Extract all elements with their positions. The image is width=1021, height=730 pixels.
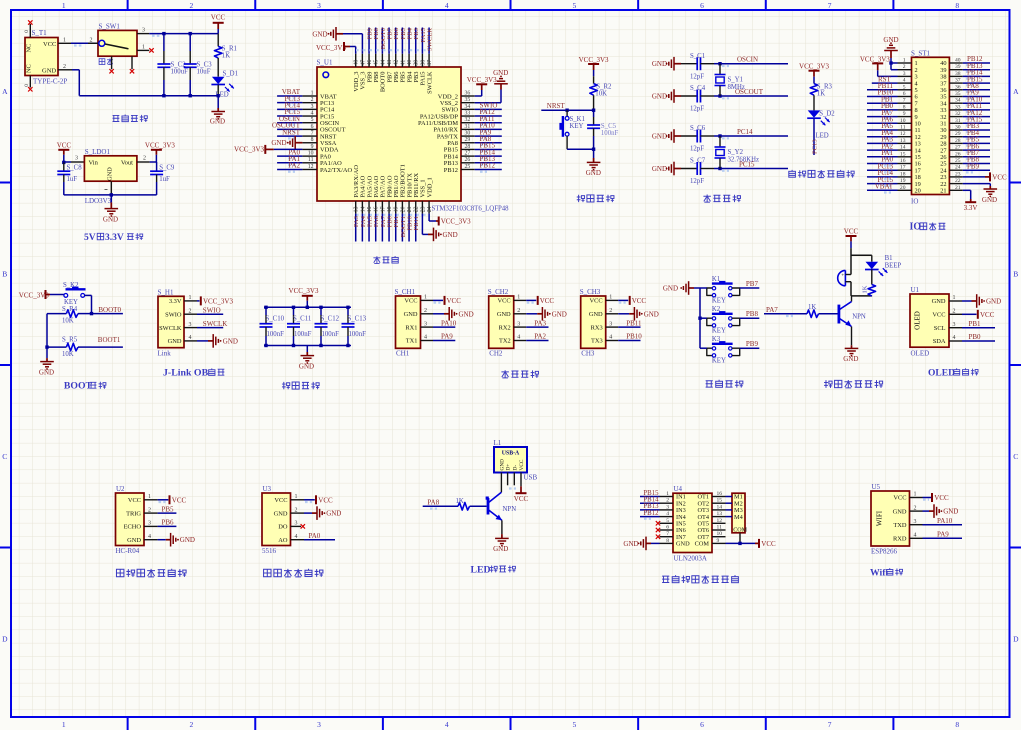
svg-text:31: 31 — [465, 124, 471, 130]
svg-text:11: 11 — [900, 125, 906, 131]
capacitor S_C12 100nF — [315, 307, 340, 345]
net label PB8 (ST1 right) — [963, 156, 990, 166]
svg-text:S_R4: S_R4 — [62, 306, 78, 313]
power VCC (oled) — [962, 310, 995, 319]
net label PB0 (oled sda) — [962, 333, 995, 341]
section label 声光报警电路 — [824, 380, 883, 388]
node junction ldo gnd — [110, 193, 113, 196]
svg-text:1K: 1K — [862, 285, 869, 293]
svg-text:Link: Link — [158, 350, 172, 358]
svg-text:24: 24 — [427, 206, 433, 212]
svg-text:DO: DO — [278, 524, 288, 531]
svg-text:VBAT: VBAT — [875, 183, 894, 191]
svg-text:VCC: VCC — [519, 459, 525, 470]
svg-text:8: 8 — [955, 720, 959, 729]
net label PB11 (ST1 left) — [867, 82, 898, 92]
power VCC_3V3 (mcu VDD_1) — [429, 214, 471, 226]
svg-text:22: 22 — [955, 178, 961, 184]
svg-text:23: 23 — [420, 206, 426, 212]
svg-text:20: 20 — [915, 188, 921, 195]
svg-text:3: 3 — [148, 521, 151, 527]
section label 程序运行指示灯 — [789, 170, 854, 178]
svg-text:34: 34 — [465, 104, 471, 110]
LED S_D2 — [807, 110, 835, 139]
svg-text:100nF: 100nF — [267, 331, 285, 338]
svg-text:KEY: KEY — [570, 123, 584, 130]
svg-text:OLED: OLED — [928, 368, 955, 378]
svg-text:39: 39 — [955, 64, 961, 70]
svg-text:VCC: VCC — [932, 312, 945, 319]
svg-text:GND: GND — [493, 545, 508, 553]
svg-text:20: 20 — [900, 185, 906, 191]
capacitor S_C8 1uF — [57, 162, 82, 195]
svg-text:3: 3 — [295, 521, 298, 527]
capacitor S_C4 12pF — [681, 85, 720, 112]
svg-text:4: 4 — [953, 335, 956, 341]
node junction Y2 top — [718, 134, 721, 137]
svg-text:2: 2 — [666, 498, 669, 504]
svg-text:GND: GND — [299, 362, 314, 370]
net label PA0 (mcu left pin 10) — [277, 148, 302, 158]
svg-text:1: 1 — [311, 90, 314, 96]
section label 滤波电路 — [282, 382, 319, 389]
svg-text:RXD: RXD — [893, 536, 907, 543]
svg-text:S_C13: S_C13 — [348, 315, 367, 322]
svg-text:PA7: PA7 — [766, 306, 778, 314]
svg-text:38: 38 — [420, 60, 426, 66]
net label BOOT1 (mcu bottom) — [400, 214, 407, 242]
resistor S_R1 1K — [214, 34, 237, 77]
connector S_T1 TYPE-C-2P — [24, 20, 72, 91]
svg-text:GND: GND — [652, 133, 667, 141]
svg-text:1: 1 — [62, 720, 66, 729]
svg-text:21: 21 — [940, 188, 946, 195]
svg-text:100nF: 100nF — [601, 130, 619, 137]
section label LED灯电路 — [471, 564, 516, 575]
svg-text:32.768KHz: 32.768KHz — [728, 157, 760, 164]
node junction key top — [565, 109, 568, 112]
svg-text:S_D1: S_D1 — [223, 70, 239, 77]
svg-text:1: 1 — [914, 492, 917, 498]
svg-text:L1: L1 — [494, 439, 502, 447]
svg-text:2: 2 — [63, 64, 66, 70]
ground GND (uln) — [623, 537, 659, 551]
svg-text:1uF: 1uF — [159, 176, 170, 183]
resistor 1K (led series) — [862, 269, 876, 296]
svg-text:PB7: PB7 — [746, 280, 759, 288]
net label PA9 (mcu right) — [475, 128, 502, 138]
resistor 1K (led base) — [456, 498, 487, 510]
net label PB9 (K3) — [740, 340, 760, 348]
connector L1 USB-A — [494, 439, 538, 492]
net label PA15 (ST1 right) — [963, 116, 990, 126]
svg-text:OSCIN: OSCIN — [737, 56, 758, 64]
svg-text:22: 22 — [414, 206, 420, 212]
svg-text:GND: GND — [982, 196, 997, 204]
power VCC_3V3 (ST1 pin3) — [860, 55, 898, 76]
svg-text:24: 24 — [955, 165, 961, 171]
svg-text:30: 30 — [465, 130, 471, 136]
svg-text:NPN: NPN — [503, 506, 517, 513]
svg-text:KEY: KEY — [712, 328, 726, 335]
svg-text:Vin: Vin — [89, 160, 99, 167]
net label VBAT (mcu left pin 1) — [277, 88, 302, 98]
svg-text:GND: GND — [623, 540, 638, 548]
svg-text:9: 9 — [311, 144, 314, 150]
svg-text:3: 3 — [903, 71, 906, 77]
net label PC15 (ST1 left) — [867, 176, 898, 186]
svg-text:RX3: RX3 — [591, 324, 603, 331]
node junction C11 top — [292, 306, 295, 309]
net label PA9 (ST1 right) — [963, 89, 990, 99]
svg-text:4: 4 — [311, 110, 314, 116]
svg-text:11: 11 — [308, 157, 314, 163]
buzzer B? top wiring — [851, 248, 872, 274]
svg-text:3: 3 — [953, 322, 956, 328]
net label PB6 (mcu top) — [393, 27, 400, 53]
svg-text:TRIG: TRIG — [126, 510, 141, 517]
svg-text:S_R1: S_R1 — [222, 45, 237, 52]
net label PA0 (light ao) — [304, 532, 335, 540]
net label PB0 (mcu bottom) — [387, 214, 394, 242]
svg-text:5: 5 — [572, 1, 576, 10]
net label PB7 (mcu top) — [387, 27, 394, 53]
svg-text:13: 13 — [900, 138, 906, 144]
module U3 5516 light sensor — [262, 485, 304, 555]
net label PA3 (CH2 RX) — [526, 319, 548, 327]
net label VBAT (ST1 left) — [867, 183, 898, 193]
svg-text:6: 6 — [700, 1, 704, 10]
svg-text:GND: GND — [459, 310, 474, 318]
net label PA1 (mcu left pin 11) — [277, 155, 302, 165]
svg-text:GND: GND — [943, 508, 958, 516]
ground GND (led) — [493, 534, 509, 553]
svg-text:GND: GND — [404, 311, 418, 318]
wire filter bottom rail — [264, 345, 351, 347]
svg-text:12: 12 — [717, 518, 723, 524]
wire ldo bottom rail — [64, 194, 157, 196]
svg-text:VCC_3V3: VCC_3V3 — [441, 218, 471, 226]
grip marks top band — [356, 50, 428, 215]
svg-text:1K: 1K — [817, 90, 825, 97]
net label PB15 (mcu right) — [475, 142, 502, 152]
svg-text:23: 23 — [955, 171, 961, 177]
svg-text:GND: GND — [271, 139, 286, 147]
svg-text:GND: GND — [589, 311, 603, 318]
svg-text:29: 29 — [955, 131, 961, 137]
svg-text:1: 1 — [666, 491, 669, 497]
svg-text:7: 7 — [666, 531, 669, 537]
net label BOOT1 wire — [92, 336, 123, 347]
section label 四相五线步进电机 — [662, 575, 738, 583]
net label PB10 (CH3 TX) — [618, 333, 642, 341]
power VCC_3V3 (mcu VDD_3) — [316, 42, 356, 54]
ground GND (C4) — [652, 89, 681, 103]
net label PB14 (ST1 right) — [963, 69, 990, 79]
node junction C3 bottom — [189, 94, 192, 97]
net label PA8 (mcu right) — [475, 135, 502, 145]
no-connect IN7 — [656, 535, 660, 539]
net label PB15 (ST1 right) — [963, 75, 990, 85]
svg-text:PA8: PA8 — [427, 499, 439, 507]
svg-text:3: 3 — [666, 504, 669, 510]
svg-text:3: 3 — [142, 28, 145, 34]
svg-text:3: 3 — [914, 519, 917, 525]
crystal S_Y1 8MHz — [715, 64, 745, 96]
net label PB11 (CH3 RX) — [618, 319, 642, 327]
svg-text:4: 4 — [666, 511, 669, 517]
svg-text:GND: GND — [107, 167, 114, 181]
svg-text:37: 37 — [427, 60, 433, 66]
net label PA6 (ST1 left) — [867, 116, 898, 126]
svg-text:GND: GND — [326, 510, 341, 518]
svg-text:16: 16 — [374, 206, 380, 212]
resistor S_R4 10K — [47, 306, 92, 325]
net label PA11 (mcu right) — [475, 115, 502, 125]
net label PA5 (mcu bottom) — [367, 214, 374, 242]
svg-text:PB10: PB10 — [626, 333, 642, 341]
svg-text:S_CH1: S_CH1 — [395, 288, 416, 296]
svg-text:U5: U5 — [872, 483, 881, 491]
net label BOOT0 wire — [92, 306, 123, 314]
svg-text:D: D — [2, 635, 8, 644]
svg-text:8: 8 — [311, 137, 314, 143]
ground GND (mcu VSS_2) — [475, 69, 509, 103]
svg-text:5: 5 — [311, 117, 314, 123]
node junction C13 bottom — [346, 344, 349, 347]
mcu S_U1 STM32F103C8T6_LQFP48 — [302, 54, 509, 214]
ground GND (CH3) — [618, 307, 659, 321]
svg-text:3: 3 — [311, 104, 314, 110]
svg-text:17: 17 — [900, 165, 906, 171]
net label PA10 (wifi txd) — [923, 517, 963, 525]
svg-text:Wifi: Wifi — [870, 567, 889, 578]
ground GND (ldo) — [103, 195, 118, 224]
svg-text:12: 12 — [900, 131, 906, 137]
svg-text:47: 47 — [360, 60, 366, 66]
svg-text:PB0: PB0 — [969, 333, 982, 341]
svg-text:2: 2 — [90, 37, 93, 43]
net label PB10 (ST1 left) — [867, 89, 898, 99]
ground GND (boot) — [39, 358, 54, 376]
svg-text:32: 32 — [955, 111, 961, 117]
section label 电源电路 — [113, 115, 148, 122]
svg-text:PB12: PB12 — [480, 162, 496, 170]
power VCC (alarm) — [844, 227, 859, 248]
svg-text:ULN2003A: ULN2003A — [674, 555, 707, 563]
ground GND (alarm) — [843, 345, 858, 363]
svg-text:TX3: TX3 — [591, 338, 603, 345]
svg-text:PB1: PB1 — [969, 320, 982, 328]
svg-text:33: 33 — [955, 104, 961, 110]
svg-text:VCC_3V3: VCC_3V3 — [799, 62, 829, 70]
net label PB5 (mcu top) — [400, 27, 407, 53]
net label PB1 (ST1 left) — [867, 95, 898, 105]
svg-text:7: 7 — [828, 1, 832, 10]
ground GND (C6) — [652, 129, 681, 143]
svg-text:27: 27 — [465, 151, 471, 157]
node junction Y1 bottom — [718, 94, 721, 97]
net label PB13 (uln in3) — [640, 503, 660, 512]
svg-text:26: 26 — [955, 151, 961, 157]
net label PB1 (mcu bottom) — [393, 214, 400, 242]
power VCC (CH3) — [618, 296, 646, 305]
svg-text:1: 1 — [148, 494, 151, 500]
svg-text:S_ST1: S_ST1 — [911, 49, 931, 57]
svg-text:D-: D- — [512, 465, 518, 471]
svg-text:PA2: PA2 — [534, 333, 546, 341]
svg-text:S_Y2: S_Y2 — [728, 149, 744, 156]
svg-text:GND: GND — [676, 541, 690, 548]
svg-text:USB-A: USB-A — [502, 450, 520, 456]
svg-text:1: 1 — [609, 295, 612, 301]
connector S_CH3 — [580, 288, 619, 358]
svg-text:B: B — [1013, 270, 1018, 279]
svg-text:PB8: PB8 — [746, 310, 759, 318]
svg-text:44: 44 — [380, 60, 386, 66]
net label PA7 (ST1 left) — [867, 109, 898, 119]
no-connect IN5 — [656, 521, 660, 525]
power VCC_3V3 (run led) — [799, 62, 829, 83]
svg-text:VCC: VCC — [844, 227, 859, 235]
svg-text:34: 34 — [955, 98, 961, 104]
svg-text:PC13: PC13 — [812, 139, 819, 154]
svg-text:9: 9 — [903, 111, 906, 117]
net label OSCOUT (mcu left pin 6) — [272, 122, 302, 132]
svg-text:10: 10 — [900, 118, 906, 124]
svg-text:S_C8: S_C8 — [67, 164, 83, 171]
resistor S_R3 1K — [810, 84, 832, 111]
net label PA12 (mcu right) — [475, 108, 502, 118]
net label PA8 (led base) — [423, 499, 458, 509]
svg-text:Vout: Vout — [121, 160, 133, 167]
ground GND (oled) — [962, 294, 1001, 308]
svg-text:15: 15 — [717, 498, 723, 504]
svg-text:STM32F103C8T6_LQFP48: STM32F103C8T6_LQFP48 — [432, 206, 510, 213]
svg-text:PB12: PB12 — [643, 510, 659, 517]
svg-text:+: + — [841, 273, 844, 279]
svg-text:2: 2 — [190, 720, 194, 729]
svg-text:1: 1 — [189, 295, 192, 301]
net label PA15 (mcu top) — [420, 27, 427, 53]
svg-text:SDA: SDA — [933, 338, 946, 345]
svg-text:18: 18 — [387, 206, 393, 212]
svg-text:2: 2 — [143, 156, 146, 162]
capacitor S_C10 100nF — [260, 307, 285, 345]
svg-text:S_C1: S_C1 — [690, 53, 705, 60]
svg-text:VCC: VCC — [992, 173, 1007, 181]
power VCC (wifi) — [923, 493, 950, 502]
svg-text:0: 0 — [24, 30, 30, 33]
net label RST (ST1 pin4) — [872, 75, 898, 83]
svg-text:S_K1: S_K1 — [570, 116, 586, 123]
module U5 ESP8266 wifi — [871, 483, 923, 555]
svg-text:7: 7 — [828, 720, 832, 729]
resistor 1K (alarm base) — [807, 304, 838, 318]
svg-text:36: 36 — [465, 90, 471, 96]
svg-text:16: 16 — [900, 158, 906, 164]
svg-text:27: 27 — [955, 145, 961, 151]
svg-text:14: 14 — [717, 504, 723, 510]
svg-text:CH3: CH3 — [581, 349, 595, 357]
net label PA9 (wifi rxd) — [923, 531, 963, 539]
svg-text:1K: 1K — [222, 52, 230, 59]
svg-text:1: 1 — [295, 494, 298, 500]
svg-text:SWCLK: SWCLK — [203, 320, 228, 328]
svg-text:U1: U1 — [911, 286, 920, 294]
svg-text:PB11: PB11 — [626, 319, 642, 327]
section label BOOT电路 — [64, 381, 106, 392]
connector S_ST1 IO header — [898, 49, 963, 205]
node junction com — [738, 542, 741, 545]
svg-text:10K: 10K — [62, 351, 74, 358]
svg-text:18: 18 — [900, 171, 906, 177]
node junction C3 top — [189, 32, 192, 35]
svg-text:PA3: PA3 — [534, 319, 546, 327]
net label PA3 (mcu bottom) — [353, 214, 360, 242]
svg-text:VCC_3V3: VCC_3V3 — [316, 44, 346, 52]
svg-text:IO: IO — [911, 198, 918, 206]
svg-text:35: 35 — [465, 97, 471, 103]
svg-text:4: 4 — [914, 533, 917, 539]
net label PB7 (ST1 right) — [963, 149, 990, 159]
net label PB10 (mcu bottom) — [407, 214, 414, 242]
svg-text:S_C6: S_C6 — [690, 125, 706, 132]
svg-text:VCC: VCC — [274, 497, 287, 504]
net label PA2 (ST1 left) — [867, 142, 898, 152]
svg-text:4: 4 — [148, 534, 151, 540]
section label 超声波测距模块 — [116, 569, 186, 577]
svg-text:46: 46 — [367, 60, 373, 66]
net label PC15 (mcu left pin 4) — [277, 108, 302, 118]
svg-text:GND: GND — [586, 169, 601, 177]
net label PA2 (CH2 TX) — [526, 333, 548, 341]
power VCC (ldo input) — [57, 142, 72, 163]
node junction ldo vin — [62, 161, 65, 164]
net label PB12 (ST1 right) — [963, 55, 990, 65]
svg-text:RX1: RX1 — [405, 324, 417, 331]
no-connect IN6 — [656, 528, 660, 532]
net label PA4 (ST1 left) — [867, 129, 898, 139]
svg-text:GND: GND — [180, 536, 195, 544]
capacitor S_C2 100uF — [157, 34, 188, 96]
pushbutton K1 KEY — [707, 276, 740, 304]
svg-text:RX2: RX2 — [499, 324, 511, 331]
svg-text:CH2: CH2 — [489, 349, 503, 357]
net label SWIO wire — [197, 306, 223, 314]
section label 串口电路 — [501, 370, 538, 378]
transistor NPN (alarm) — [839, 296, 866, 345]
power VCC (ST1 pin23) — [963, 172, 1007, 181]
switch S_SW1 — [88, 23, 154, 74]
net label OSCIN (mcu left pin 5) — [277, 115, 302, 125]
net label PB12 (uln in4) — [640, 510, 660, 519]
svg-text:GND: GND — [443, 231, 458, 239]
net label NRST (mcu left pin 7) — [277, 128, 302, 138]
svg-text:BOOT0: BOOT0 — [98, 306, 121, 314]
svg-text:KEY: KEY — [712, 297, 726, 304]
pushbutton S_K1 KEY — [559, 110, 585, 149]
ground GND (jlink) — [197, 334, 238, 348]
svg-text:VDD_1: VDD_1 — [426, 177, 433, 197]
svg-text:VCC: VCC — [172, 496, 187, 504]
svg-text:BEEP: BEEP — [885, 263, 902, 270]
svg-text:VCC: VCC — [404, 298, 417, 305]
svg-text:5: 5 — [572, 720, 576, 729]
wire filter top rail — [264, 306, 351, 308]
net label BOOT0 (mcu top) — [380, 27, 387, 53]
svg-text:GND: GND — [223, 337, 238, 345]
